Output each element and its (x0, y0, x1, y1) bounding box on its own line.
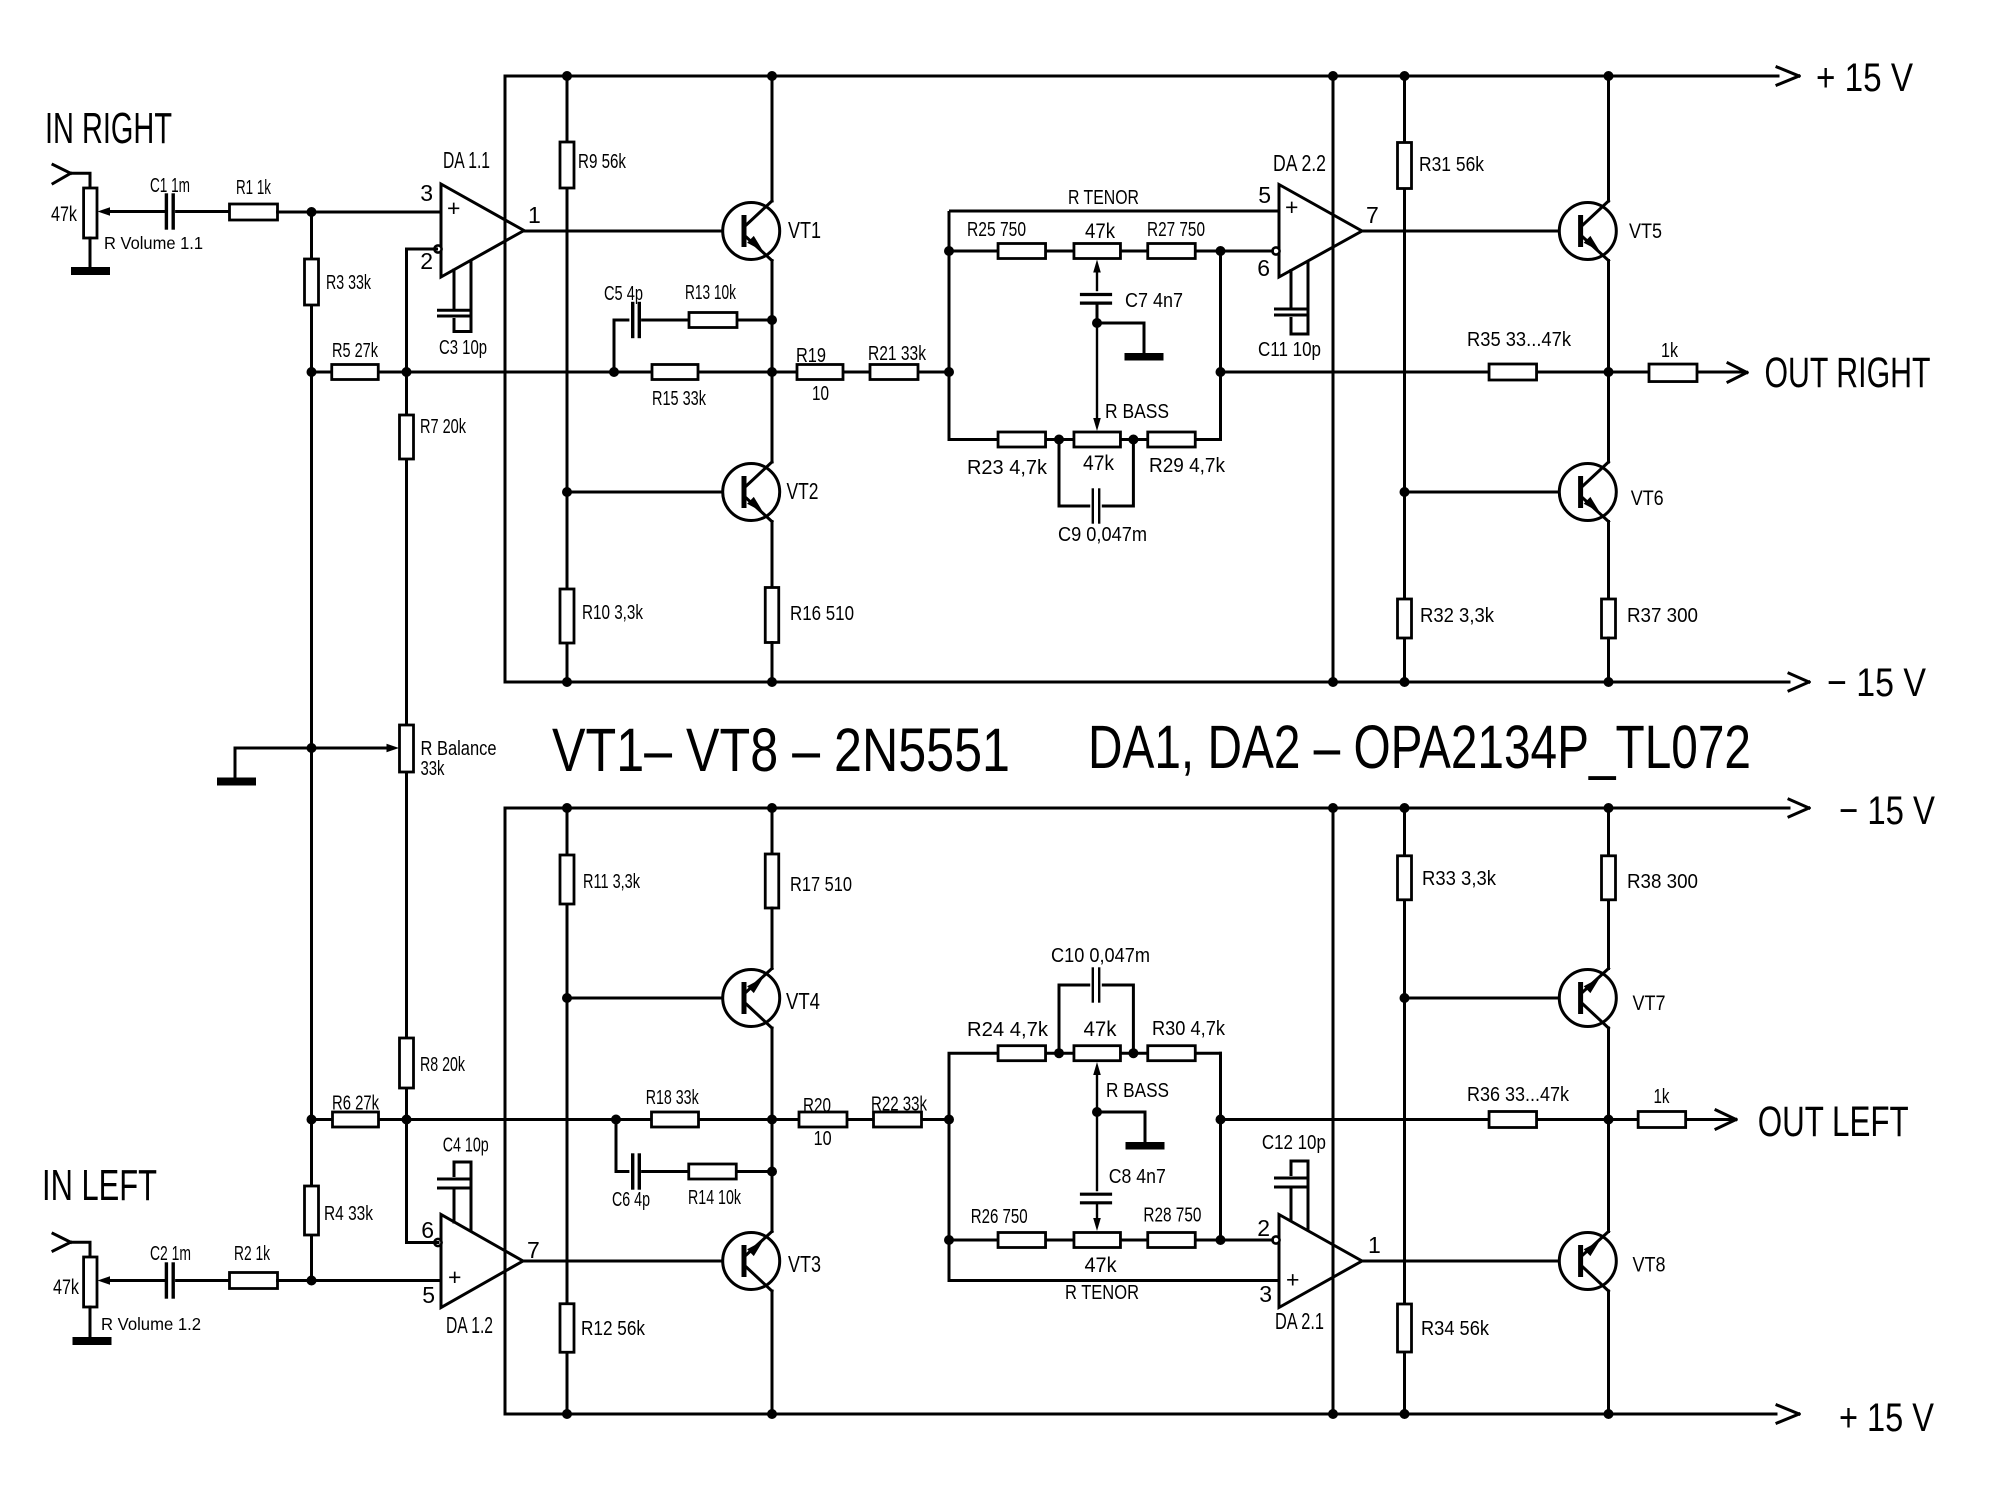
wire VT3 collector (771, 1291, 774, 1414)
resistor R14 (689, 1164, 737, 1179)
resistor R18 (652, 1112, 699, 1127)
node R8 feedback junction (402, 1115, 412, 1125)
label +15V top (1816, 56, 1913, 100)
node R31 top (1400, 71, 1410, 81)
wire left frame (right channel) (504, 76, 507, 682)
arrow OUT LEFT (1716, 1110, 1736, 1129)
svg-text:R17 510: R17 510 (790, 874, 852, 896)
wire VT5 emitter (1607, 261, 1610, 373)
potentiometer R BASS 47k bottom (1074, 1046, 1121, 1061)
wire VT2 collector (771, 372, 774, 462)
resistor R10 (560, 589, 574, 643)
op-amp DA2.1 (1272, 1215, 1362, 1308)
arrow -15V right (1789, 673, 1809, 691)
label C12 10p (1262, 1132, 1326, 1154)
wire C7 to wiper junction (1096, 303, 1099, 323)
resistor R9 (560, 142, 574, 188)
resistor R12 (560, 1304, 574, 1353)
resistor R19 (797, 365, 843, 380)
resistor R22 (874, 1112, 922, 1127)
svg-text:47k: 47k (1085, 1254, 1117, 1277)
node VT4 emitter top (767, 803, 777, 813)
transistor VT4 (723, 969, 780, 1029)
resistor R25 (998, 244, 1046, 259)
transistor VT6 (1559, 462, 1616, 522)
node VT7 base junction (1400, 993, 1410, 1003)
label R11 3,3k (583, 871, 641, 893)
node VT1 collector top (767, 71, 777, 81)
node tone right feedback junction (1216, 367, 1226, 377)
label 33k balance (421, 758, 446, 780)
node R34 bottom (1400, 1409, 1410, 1419)
resistor R28 (1148, 1233, 1196, 1248)
wire wiper to C8 (1096, 1112, 1098, 1190)
label R23 4,7k (967, 457, 1048, 479)
label R2 1k (234, 1243, 271, 1265)
wire VT6 base (1405, 491, 1579, 494)
resistor R3 (305, 259, 319, 305)
node R14 junction (767, 1167, 777, 1177)
label VT6 (1631, 487, 1664, 510)
svg-text:C6 4p: C6 4p (612, 1189, 650, 1211)
svg-text:C8 4n7: C8 4n7 (1109, 1166, 1166, 1188)
node tenor branch left (944, 246, 954, 256)
pin 6 DA1.2 (421, 1217, 434, 1243)
node R33 top (1400, 803, 1410, 813)
resistor R33 (1398, 856, 1412, 900)
resistor R38 (1602, 856, 1616, 900)
arrow +15V bottom (1777, 1405, 1799, 1423)
svg-text:C5 4p: C5 4p (604, 283, 643, 305)
pin 2 DA1.1 (420, 248, 433, 274)
label 1k out left (1654, 1086, 1671, 1108)
wire R38 to VT7 (1607, 900, 1610, 969)
svg-text:C9 0,047m: C9 0,047m (1058, 524, 1147, 546)
node tenor branch right bottom (1216, 1235, 1226, 1245)
svg-text:+: + (1285, 194, 1298, 220)
svg-text:− 15 V: − 15 V (1839, 789, 1935, 833)
node tone ground junction bottom (1092, 1107, 1102, 1117)
svg-text:VT8: VT8 (1633, 1254, 1666, 1277)
node VT3 collector bottom (767, 1409, 777, 1419)
pin 1 DA2.1 (1368, 1232, 1381, 1258)
label C3 10p (439, 337, 487, 359)
label VT2 (787, 478, 819, 504)
svg-text:R30 4,7k: R30 4,7k (1152, 1018, 1226, 1040)
svg-text:OUT LEFT: OUT LEFT (1758, 1099, 1909, 1146)
svg-text:R2 1k: R2 1k (234, 1243, 271, 1265)
pin 5 DA2.2 (1258, 182, 1271, 208)
capacitor C5 branch (614, 304, 772, 373)
node VT3 collector junction (767, 1115, 777, 1125)
svg-text:5: 5 (1258, 182, 1271, 208)
label DA 2.1 (1275, 1308, 1324, 1334)
label R3 33k (326, 272, 372, 294)
wire feedback line left channel (312, 1118, 950, 1121)
node VT2 base junction (562, 487, 572, 497)
resistor R2 (230, 1273, 442, 1289)
resistor R24 (998, 1046, 1046, 1061)
wire VT7 collector (1607, 1028, 1610, 1120)
resistor R36 (1489, 1112, 1537, 1128)
resistor R29 (1148, 432, 1196, 447)
resistor R15 (652, 365, 698, 380)
label R20 value 10 (814, 1128, 832, 1150)
label R21 33k (868, 343, 927, 365)
wire wiper to R BASS (1093, 323, 1101, 431)
node C6 junction (611, 1115, 621, 1125)
label C6 4p (612, 1189, 650, 1211)
svg-text:VT4: VT4 (786, 988, 820, 1014)
transistor VT5 (1559, 201, 1616, 261)
svg-text:VT3: VT3 (788, 1251, 821, 1277)
svg-text:R36 33...47k: R36 33...47k (1467, 1084, 1570, 1106)
label R1 1k (236, 177, 272, 199)
label DA 1.2 (446, 1312, 493, 1338)
node R16 bottom (767, 677, 777, 687)
svg-text:R21 33k: R21 33k (868, 343, 927, 365)
svg-text:+ 15 V: + 15 V (1816, 56, 1913, 100)
label IN LEFT (42, 1161, 157, 1210)
label VT3 (788, 1251, 821, 1277)
svg-text:OUT RIGHT: OUT RIGHT (1765, 350, 1931, 397)
wiper R BASS arrow bottom (1093, 1062, 1101, 1112)
svg-text:10: 10 (814, 1128, 832, 1150)
label R TENOR bottom (1065, 1282, 1139, 1304)
svg-text:VT1: VT1 (788, 217, 821, 243)
label DA1 DA2 OPA2134P_TL072 (1088, 713, 1751, 781)
svg-text:DA 1.1: DA 1.1 (443, 147, 490, 173)
svg-text:6: 6 (1257, 255, 1270, 281)
label R29 4,7k (1149, 455, 1226, 477)
svg-text:2: 2 (420, 248, 433, 274)
svg-text:R13 10k: R13 10k (685, 282, 737, 304)
label DA 2.2 (1273, 150, 1326, 176)
label R18 33k (646, 1087, 700, 1109)
svg-text:+ 15 V: + 15 V (1839, 1396, 1934, 1440)
svg-text:R9 56k: R9 56k (578, 151, 627, 173)
svg-text:47k: 47k (1083, 452, 1114, 475)
label R24 4,7k (967, 1019, 1049, 1041)
label R13 10k (685, 282, 737, 304)
svg-text:− 15 V: − 15 V (1827, 661, 1926, 705)
svg-text:C3 10p: C3 10p (439, 337, 487, 359)
label R7 20k (420, 416, 467, 438)
label -15V left (1839, 789, 1935, 833)
node right frame bottom bottomhalf (1328, 1409, 1338, 1419)
svg-text:R1 1k: R1 1k (236, 177, 272, 199)
node right frame bottom (1328, 677, 1338, 687)
label R33 3,3k (1422, 868, 1497, 890)
ground below R Volume 1.1 (71, 238, 110, 275)
input jack left (53, 1234, 90, 1258)
node tone right feedback junction bottom (1216, 1115, 1226, 1125)
resistor R16 (765, 588, 779, 643)
svg-text:R7 20k: R7 20k (420, 416, 467, 438)
potentiometer R TENOR 47k bottom (1074, 1233, 1121, 1248)
label C7 4n7 (1125, 290, 1183, 312)
svg-text:DA 2.2: DA 2.2 (1273, 150, 1326, 176)
svg-text:DA 1.2: DA 1.2 (446, 1312, 493, 1338)
wire VT8 emitter (1607, 1120, 1610, 1232)
capacitor C8 (1082, 1194, 1111, 1203)
wire R16 to bus (771, 643, 774, 683)
label R19 value 10 (812, 383, 829, 405)
node C9 right junction (1128, 435, 1138, 445)
resistor R35 (1489, 364, 1537, 380)
node right frame top bottomhalf (1328, 803, 1338, 813)
svg-text:R Volume 1.2: R Volume 1.2 (101, 1314, 201, 1334)
node VT7 emitter top (1604, 803, 1614, 813)
svg-text:R16 510: R16 510 (790, 603, 854, 625)
wire R TENOR line bottom (949, 1053, 1279, 1280)
wiper R TENOR arrow (1093, 260, 1101, 291)
label R34 56k (1421, 1318, 1490, 1340)
label R12 56k (581, 1318, 646, 1340)
label C10 0,047m (1051, 945, 1150, 967)
input jack right (53, 165, 90, 188)
wire tenor branch (949, 250, 1272, 253)
transistor VT7 (1559, 969, 1616, 1029)
capacitor C11 (1276, 261, 1309, 334)
wire VT1 collector (771, 76, 774, 201)
label 1k out right (1661, 340, 1679, 362)
label R37 300 (1627, 605, 1698, 627)
svg-text:R Volume 1.1: R Volume 1.1 (104, 233, 203, 253)
svg-text:R BASS: R BASS (1105, 401, 1169, 423)
svg-text:R35 33...47k: R35 33...47k (1467, 329, 1572, 351)
wire right frame (right channel) (1332, 76, 1335, 682)
label 47k bass bottom (1084, 1018, 1117, 1041)
node R37 bottom (1604, 677, 1614, 687)
node tenor branch left bottom (944, 1235, 954, 1245)
op-amp DA1.1 (434, 184, 524, 277)
svg-text:C11 10p: C11 10p (1258, 339, 1321, 361)
capacitor C10 bracket (1059, 969, 1133, 1054)
wire VT1 emitter (771, 261, 774, 373)
svg-text:C7 4n7: C7 4n7 (1125, 290, 1183, 312)
label R BASS top (1105, 401, 1169, 423)
label VT1-VT8 2N5551 (552, 716, 1010, 784)
svg-text:R12 56k: R12 56k (581, 1318, 646, 1340)
node right frame top (1328, 71, 1338, 81)
node input junction right (307, 207, 317, 217)
wire VT4 emitter to bus (771, 808, 774, 854)
wire input vertical (310, 212, 313, 1281)
label R36 33...47k (1467, 1084, 1570, 1106)
svg-text:R23 4,7k: R23 4,7k (967, 457, 1048, 479)
label IN RIGHT (45, 104, 172, 153)
svg-text:R33 3,3k: R33 3,3k (1422, 868, 1497, 890)
label R25 750 (967, 219, 1026, 241)
ground below R Volume 1.2 (73, 1307, 112, 1345)
svg-text:C2 1m: C2 1m (150, 1243, 191, 1265)
svg-text:R31 56k: R31 56k (1419, 154, 1485, 176)
resistor R34 (1398, 1304, 1412, 1352)
wire left frame (left channel) (504, 808, 507, 1414)
wire R17 to VT4 (771, 908, 774, 969)
svg-text:VT2: VT2 (787, 478, 819, 504)
wire DA1.2 output to VT3 base (523, 1260, 742, 1263)
wire VT3 emitter (771, 1120, 774, 1232)
svg-text:R28 750: R28 750 (1143, 1205, 1201, 1227)
capacitor C4 (439, 1162, 472, 1232)
wire DA1.1 output to VT1 base (524, 230, 742, 233)
svg-text:5: 5 (422, 1282, 435, 1308)
label C8 4n7 (1109, 1166, 1166, 1188)
label OUT RIGHT (1765, 350, 1931, 397)
svg-text:33k: 33k (421, 758, 446, 780)
wire VT4 base (567, 997, 742, 1000)
svg-text:2: 2 (1257, 1215, 1270, 1241)
wire VT2 base (567, 491, 742, 494)
label R19 (796, 345, 826, 367)
svg-text:R18 33k: R18 33k (646, 1087, 700, 1109)
wire VT8 collector (1607, 1291, 1610, 1414)
node R11 top (562, 803, 572, 813)
node VT8 collector bottom (1604, 1409, 1614, 1419)
wire VT6 collector (1607, 372, 1610, 462)
label R Volume 1.1 (104, 233, 203, 253)
wire +15V bottom bus (505, 1413, 1776, 1416)
svg-text:VT6: VT6 (1631, 487, 1664, 510)
wire VT7 emitter to bus (1607, 808, 1610, 854)
label R10 3,3k (582, 602, 644, 624)
label R32 3,3k (1420, 605, 1495, 627)
node R5 junction (307, 367, 317, 377)
node balance wiper junction (307, 743, 317, 753)
arrow OUT RIGHT (1728, 363, 1747, 382)
resistor R23 (998, 432, 1046, 447)
svg-text:R22 33k: R22 33k (871, 1094, 928, 1116)
svg-text:47k: 47k (1084, 1018, 1117, 1041)
svg-text:47k: 47k (1085, 220, 1115, 243)
wire bass branch (949, 251, 1221, 440)
op-amp DA2.2 (1272, 185, 1362, 278)
svg-text:R4 33k: R4 33k (324, 1203, 374, 1225)
svg-text:47k: 47k (53, 1276, 79, 1299)
label 47k bass top (1083, 452, 1114, 475)
label C2 1m (150, 1243, 191, 1265)
svg-text:C12 10p: C12 10p (1262, 1132, 1326, 1154)
wire C8 to R TENOR arrow (1093, 1203, 1101, 1231)
label R20 (803, 1095, 831, 1117)
label R17 510 (790, 874, 852, 896)
svg-text:R3 33k: R3 33k (326, 272, 372, 294)
resistor R8 (400, 1038, 414, 1088)
transistor VT8 (1559, 1232, 1616, 1292)
svg-text:VT7: VT7 (1633, 992, 1666, 1015)
label C4 10p (443, 1135, 489, 1157)
capacitor C12 (1276, 1161, 1309, 1230)
svg-text:R5 27k: R5 27k (332, 340, 379, 362)
svg-text:VT5: VT5 (1629, 220, 1662, 243)
svg-text:VT1– VT8 – 2N5551: VT1– VT8 – 2N5551 (552, 716, 1010, 784)
wire DA2.2 inverting (1221, 250, 1273, 253)
node VT5 collector top (1604, 71, 1614, 81)
svg-text:R10 3,3k: R10 3,3k (582, 602, 644, 624)
label R30 4,7k (1152, 1018, 1226, 1040)
wire R37 to bus (1607, 638, 1610, 682)
pin 5 DA1.2 (422, 1282, 435, 1308)
ground at C8 (1097, 1112, 1165, 1150)
capacitor C3 (439, 261, 472, 332)
label R5 27k (332, 340, 379, 362)
op-amp DA1.2 (434, 1215, 523, 1308)
label VT7 (1633, 992, 1666, 1015)
svg-text:R19: R19 (796, 345, 826, 367)
svg-text:R Balance: R Balance (421, 738, 497, 760)
pin 6 DA2.2 (1257, 255, 1270, 281)
svg-text:R29 4,7k: R29 4,7k (1149, 455, 1226, 477)
svg-text:1k: 1k (1661, 340, 1679, 362)
node out left junction (1604, 1115, 1614, 1125)
svg-text:R32 3,3k: R32 3,3k (1420, 605, 1495, 627)
label VT8 (1633, 1254, 1666, 1277)
wire DA2.2 output to VT5 base (1362, 230, 1578, 233)
svg-text:7: 7 (1366, 202, 1379, 228)
label R8 20k (420, 1054, 466, 1076)
label R9 56k (578, 151, 627, 173)
label R28 750 (1143, 1205, 1201, 1227)
resistor R26 (998, 1233, 1046, 1248)
pin 3 DA2.1 (1259, 1281, 1272, 1307)
label C1 1m (150, 175, 190, 197)
wire VT7 base (1405, 997, 1579, 1000)
svg-text:C1 1m: C1 1m (150, 175, 190, 197)
transistor VT1 (723, 201, 780, 261)
svg-text:C4 10p: C4 10p (443, 1135, 489, 1157)
label R27 750 (1147, 219, 1205, 241)
label C5 4p (604, 283, 643, 305)
label R14 10k (688, 1187, 742, 1209)
label 47k volume right (51, 203, 77, 226)
capacitor C9 bracket (1059, 440, 1133, 523)
potentiometer R Balance (312, 725, 414, 772)
pin 7 DA2.2 (1366, 202, 1379, 228)
svg-text:3: 3 (420, 180, 433, 206)
svg-text:R TENOR: R TENOR (1068, 187, 1139, 209)
resistor R13 (689, 313, 737, 328)
capacitor C7 (1082, 295, 1111, 304)
label R4 33k (324, 1203, 374, 1225)
svg-text:R26 750: R26 750 (971, 1206, 1028, 1228)
node input junction left (307, 1276, 317, 1286)
svg-text:3: 3 (1259, 1281, 1272, 1307)
resistor R20 (799, 1112, 847, 1127)
node VT6 base junction (1400, 487, 1410, 497)
node out right junction (1604, 367, 1614, 377)
svg-text:R38 300: R38 300 (1627, 871, 1698, 893)
capacitor C6 branch (616, 1120, 772, 1189)
wire VT5 collector (1607, 76, 1610, 201)
node R13 junction (767, 315, 777, 325)
potentiometer R BASS 47k (1074, 432, 1121, 447)
label C9 0,047m (1058, 524, 1147, 546)
wire VT2 emitter (771, 522, 774, 589)
resistor R31 (1398, 143, 1412, 189)
label VT4 (786, 988, 820, 1014)
wire out right line (1221, 371, 1746, 374)
svg-text:IN LEFT: IN LEFT (42, 1161, 157, 1210)
transistor VT2 (723, 462, 780, 522)
label R6 27k (332, 1093, 380, 1115)
label R38 300 (1627, 871, 1698, 893)
resistor R27 (1148, 244, 1196, 259)
svg-text:7: 7 (527, 1237, 540, 1263)
svg-text:47k: 47k (51, 203, 77, 226)
wire +15V top bus (505, 75, 1778, 78)
